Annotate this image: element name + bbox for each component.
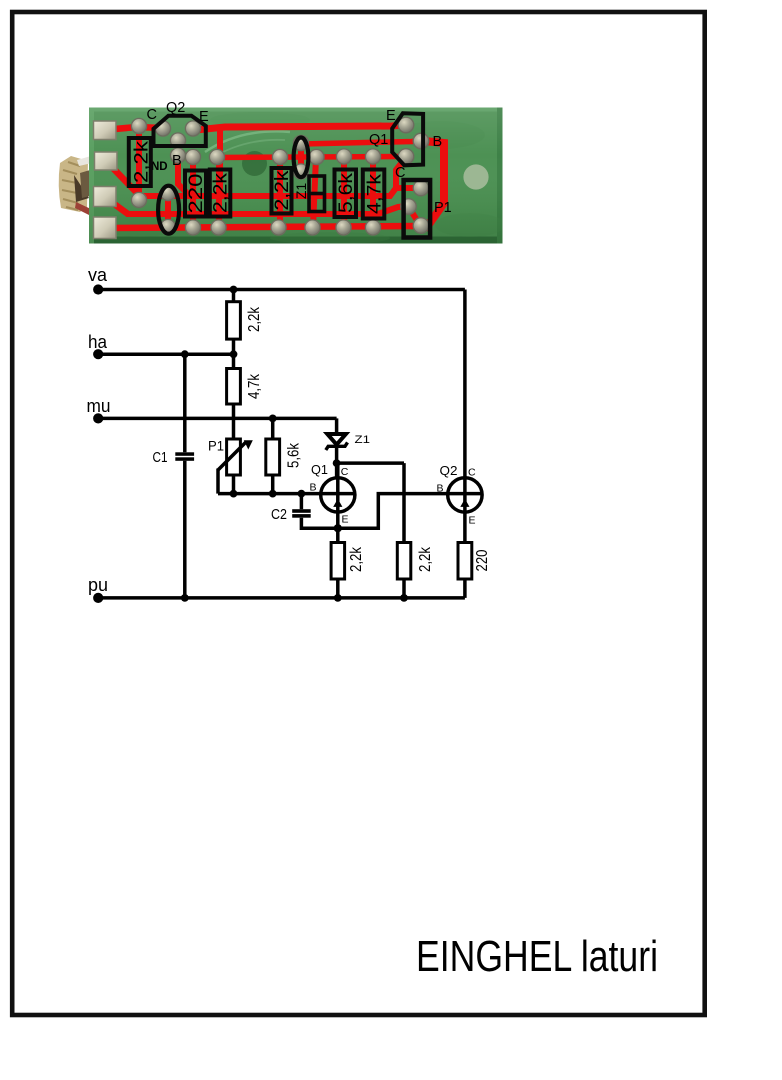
node junction C1/pu <box>181 594 189 602</box>
wire R4 to pu <box>402 579 406 598</box>
wire R1 to R2 <box>232 339 236 368</box>
vertical top trace drop x=220 <box>217 129 223 195</box>
wire R3 to pu <box>336 579 340 598</box>
potentiometer P1 photo outline <box>404 180 431 238</box>
wire Z1 to junction <box>335 448 339 478</box>
capacitor C1 <box>175 452 194 456</box>
svg-text:va: va <box>88 264 108 285</box>
transistor Q2 <box>448 478 482 512</box>
wire P1 bottom <box>232 475 236 494</box>
svg-text:2,2k: 2,2k <box>132 140 153 183</box>
svg-text:ha: ha <box>88 331 108 352</box>
dark circle shadow on board <box>242 151 267 176</box>
photo labels <box>147 100 452 216</box>
wire C2 bottom to E junction <box>301 518 337 529</box>
svg-text:Z1: Z1 <box>355 434 371 446</box>
wire R4 drop <box>402 463 406 542</box>
svg-text:E: E <box>199 109 209 125</box>
wire base rail <box>218 492 355 496</box>
svg-text:2,2k: 2,2k <box>348 546 365 572</box>
resistor R 2,2k top <box>227 302 241 339</box>
transistor Q1 photo outline <box>392 113 423 165</box>
Q2 B pad link <box>178 141 190 196</box>
svg-text:pu: pu <box>88 574 108 595</box>
round pads <box>131 117 428 235</box>
wire va to R1 <box>232 290 236 302</box>
board texture patches <box>100 112 505 244</box>
svg-text:mu: mu <box>87 395 111 416</box>
resistor through stripes <box>136 126 142 200</box>
node junction mu/5,6k <box>269 415 277 423</box>
zener Z1 <box>326 434 348 450</box>
potentiometer P1 wiper arrow <box>218 442 247 471</box>
svg-text:2,2k: 2,2k <box>272 170 293 211</box>
jumper ellipse left <box>158 186 179 234</box>
svg-text:C2: C2 <box>271 507 287 523</box>
wire va right drop to Q2 collector <box>463 290 467 479</box>
wire mu rail <box>98 417 336 421</box>
svg-text:Q2: Q2 <box>440 464 458 478</box>
svg-text:E: E <box>342 514 349 526</box>
node junction R3/pu <box>334 594 342 602</box>
wire va rail <box>98 288 465 292</box>
node junction 5,6k bottom <box>269 490 277 498</box>
trace C bottom y=228 <box>106 226 416 228</box>
trace A long y=196 <box>134 188 417 196</box>
photo component value texts <box>132 140 386 214</box>
transistor Q1 <box>321 478 355 512</box>
node junction Z1/Q1-C <box>333 459 341 467</box>
transistor Q2 photo outline <box>154 116 206 146</box>
cable entering board <box>59 156 93 216</box>
mid trace y=157.5 <box>217 157 402 158</box>
wire Q1-E to R3 <box>336 528 340 542</box>
wire pu rail <box>98 596 465 600</box>
svg-text:B: B <box>433 134 443 150</box>
resistor 4,7k photo outline <box>363 170 385 219</box>
wire C1 bottom <box>183 461 187 598</box>
component outlines (black marker) <box>129 113 430 237</box>
svg-text:P1: P1 <box>208 438 224 454</box>
svg-text:B: B <box>172 153 182 169</box>
svg-text:Z1: Z1 <box>293 183 309 200</box>
top long trace <box>196 125 404 130</box>
svg-text:B: B <box>437 482 444 494</box>
resistor R 2,2k photo outline #1 <box>129 138 151 186</box>
wire junction right to R4 drop <box>337 461 404 465</box>
svg-text:EINGHEL laturi: EINGHEL laturi <box>416 932 658 981</box>
Q1 C pad loop down to P1 <box>396 157 406 187</box>
trace pad3 diagonal to trace B <box>106 198 128 214</box>
P1 inner diagonal <box>408 206 420 225</box>
node va terminal <box>93 284 103 294</box>
node junction Q1 emitter <box>334 524 342 532</box>
wire mu to 5,6k <box>271 418 275 439</box>
trace pad2 diagonal <box>108 163 138 194</box>
light hole right side <box>463 164 488 189</box>
wire 5,6k bottom <box>271 475 275 494</box>
svg-text:2,2k: 2,2k <box>211 172 232 213</box>
node junction P1 bottom <box>230 490 238 498</box>
svg-text:5,6k: 5,6k <box>286 442 303 468</box>
trace B long y=214 <box>126 206 408 214</box>
svg-text:Q1: Q1 <box>311 463 328 477</box>
wire R2 down to P1 <box>232 404 236 439</box>
svg-text:220: 220 <box>186 174 207 214</box>
svg-text:C1: C1 <box>153 450 168 466</box>
svg-text:Q1: Q1 <box>369 132 388 148</box>
capacitor C2 <box>292 509 311 513</box>
svg-text:C: C <box>341 466 349 478</box>
svg-text:C: C <box>395 165 405 181</box>
Q1 B pad right vertical to P1 bottom <box>421 141 444 227</box>
node ha terminal <box>93 349 103 359</box>
svg-text:E: E <box>469 515 476 527</box>
svg-text:4,7k: 4,7k <box>246 373 263 399</box>
svg-text:P1: P1 <box>434 200 452 216</box>
svg-text:5,6k: 5,6k <box>336 172 357 213</box>
resistor R 2,2k mid <box>397 543 411 580</box>
trace pad1 to R top to C pad <box>104 127 163 130</box>
wire C2 top <box>300 494 304 510</box>
svg-text:220: 220 <box>474 549 491 571</box>
svg-text:E: E <box>386 108 396 124</box>
node mu terminal <box>93 413 103 423</box>
resistor R 4,7k <box>227 369 241 405</box>
wire E to Q2 base <box>338 494 448 529</box>
resistor R 2,2k Q1 emitter <box>331 543 345 580</box>
square pads <box>94 121 118 239</box>
svg-text:C: C <box>468 467 476 479</box>
zener Z1 photo outline <box>309 176 325 212</box>
resistor 2,2k photo outline #2 <box>210 170 231 217</box>
resistor R 5,6k <box>266 439 280 475</box>
svg-text:ND: ND <box>151 161 168 173</box>
node junction ha rail <box>230 350 238 358</box>
potentiometer P1 <box>227 439 241 475</box>
resistor 5,6k photo outline <box>335 170 357 218</box>
upper mid trace y=143 <box>302 140 420 144</box>
node junction ha/C1 <box>181 350 189 358</box>
resistor 220 photo outline <box>185 171 206 217</box>
wire mu corner down to Z1 <box>335 418 339 434</box>
jumper ellipse mid <box>294 138 309 178</box>
wire C1 top <box>183 354 187 452</box>
svg-text:Q2: Q2 <box>166 100 185 116</box>
svg-text:2,2k: 2,2k <box>417 546 434 572</box>
svg-text:4,7k: 4,7k <box>365 173 386 214</box>
node junction base/C2 <box>298 490 306 498</box>
resistor 2,2k photo outline #3 <box>272 168 292 214</box>
scratch texture <box>205 131 290 152</box>
svg-text:B: B <box>310 482 317 494</box>
wire ha rail <box>98 352 233 356</box>
PCB board <box>89 108 503 244</box>
svg-text:C: C <box>147 107 157 123</box>
node junction R4/pu <box>400 594 408 602</box>
node junction va/R1 <box>230 286 238 294</box>
wire 220 to pu corner <box>463 579 467 598</box>
svg-text:2,2k: 2,2k <box>246 306 263 332</box>
node pu terminal <box>93 593 103 603</box>
red traces <box>104 125 444 228</box>
resistor R 220 <box>458 543 472 580</box>
